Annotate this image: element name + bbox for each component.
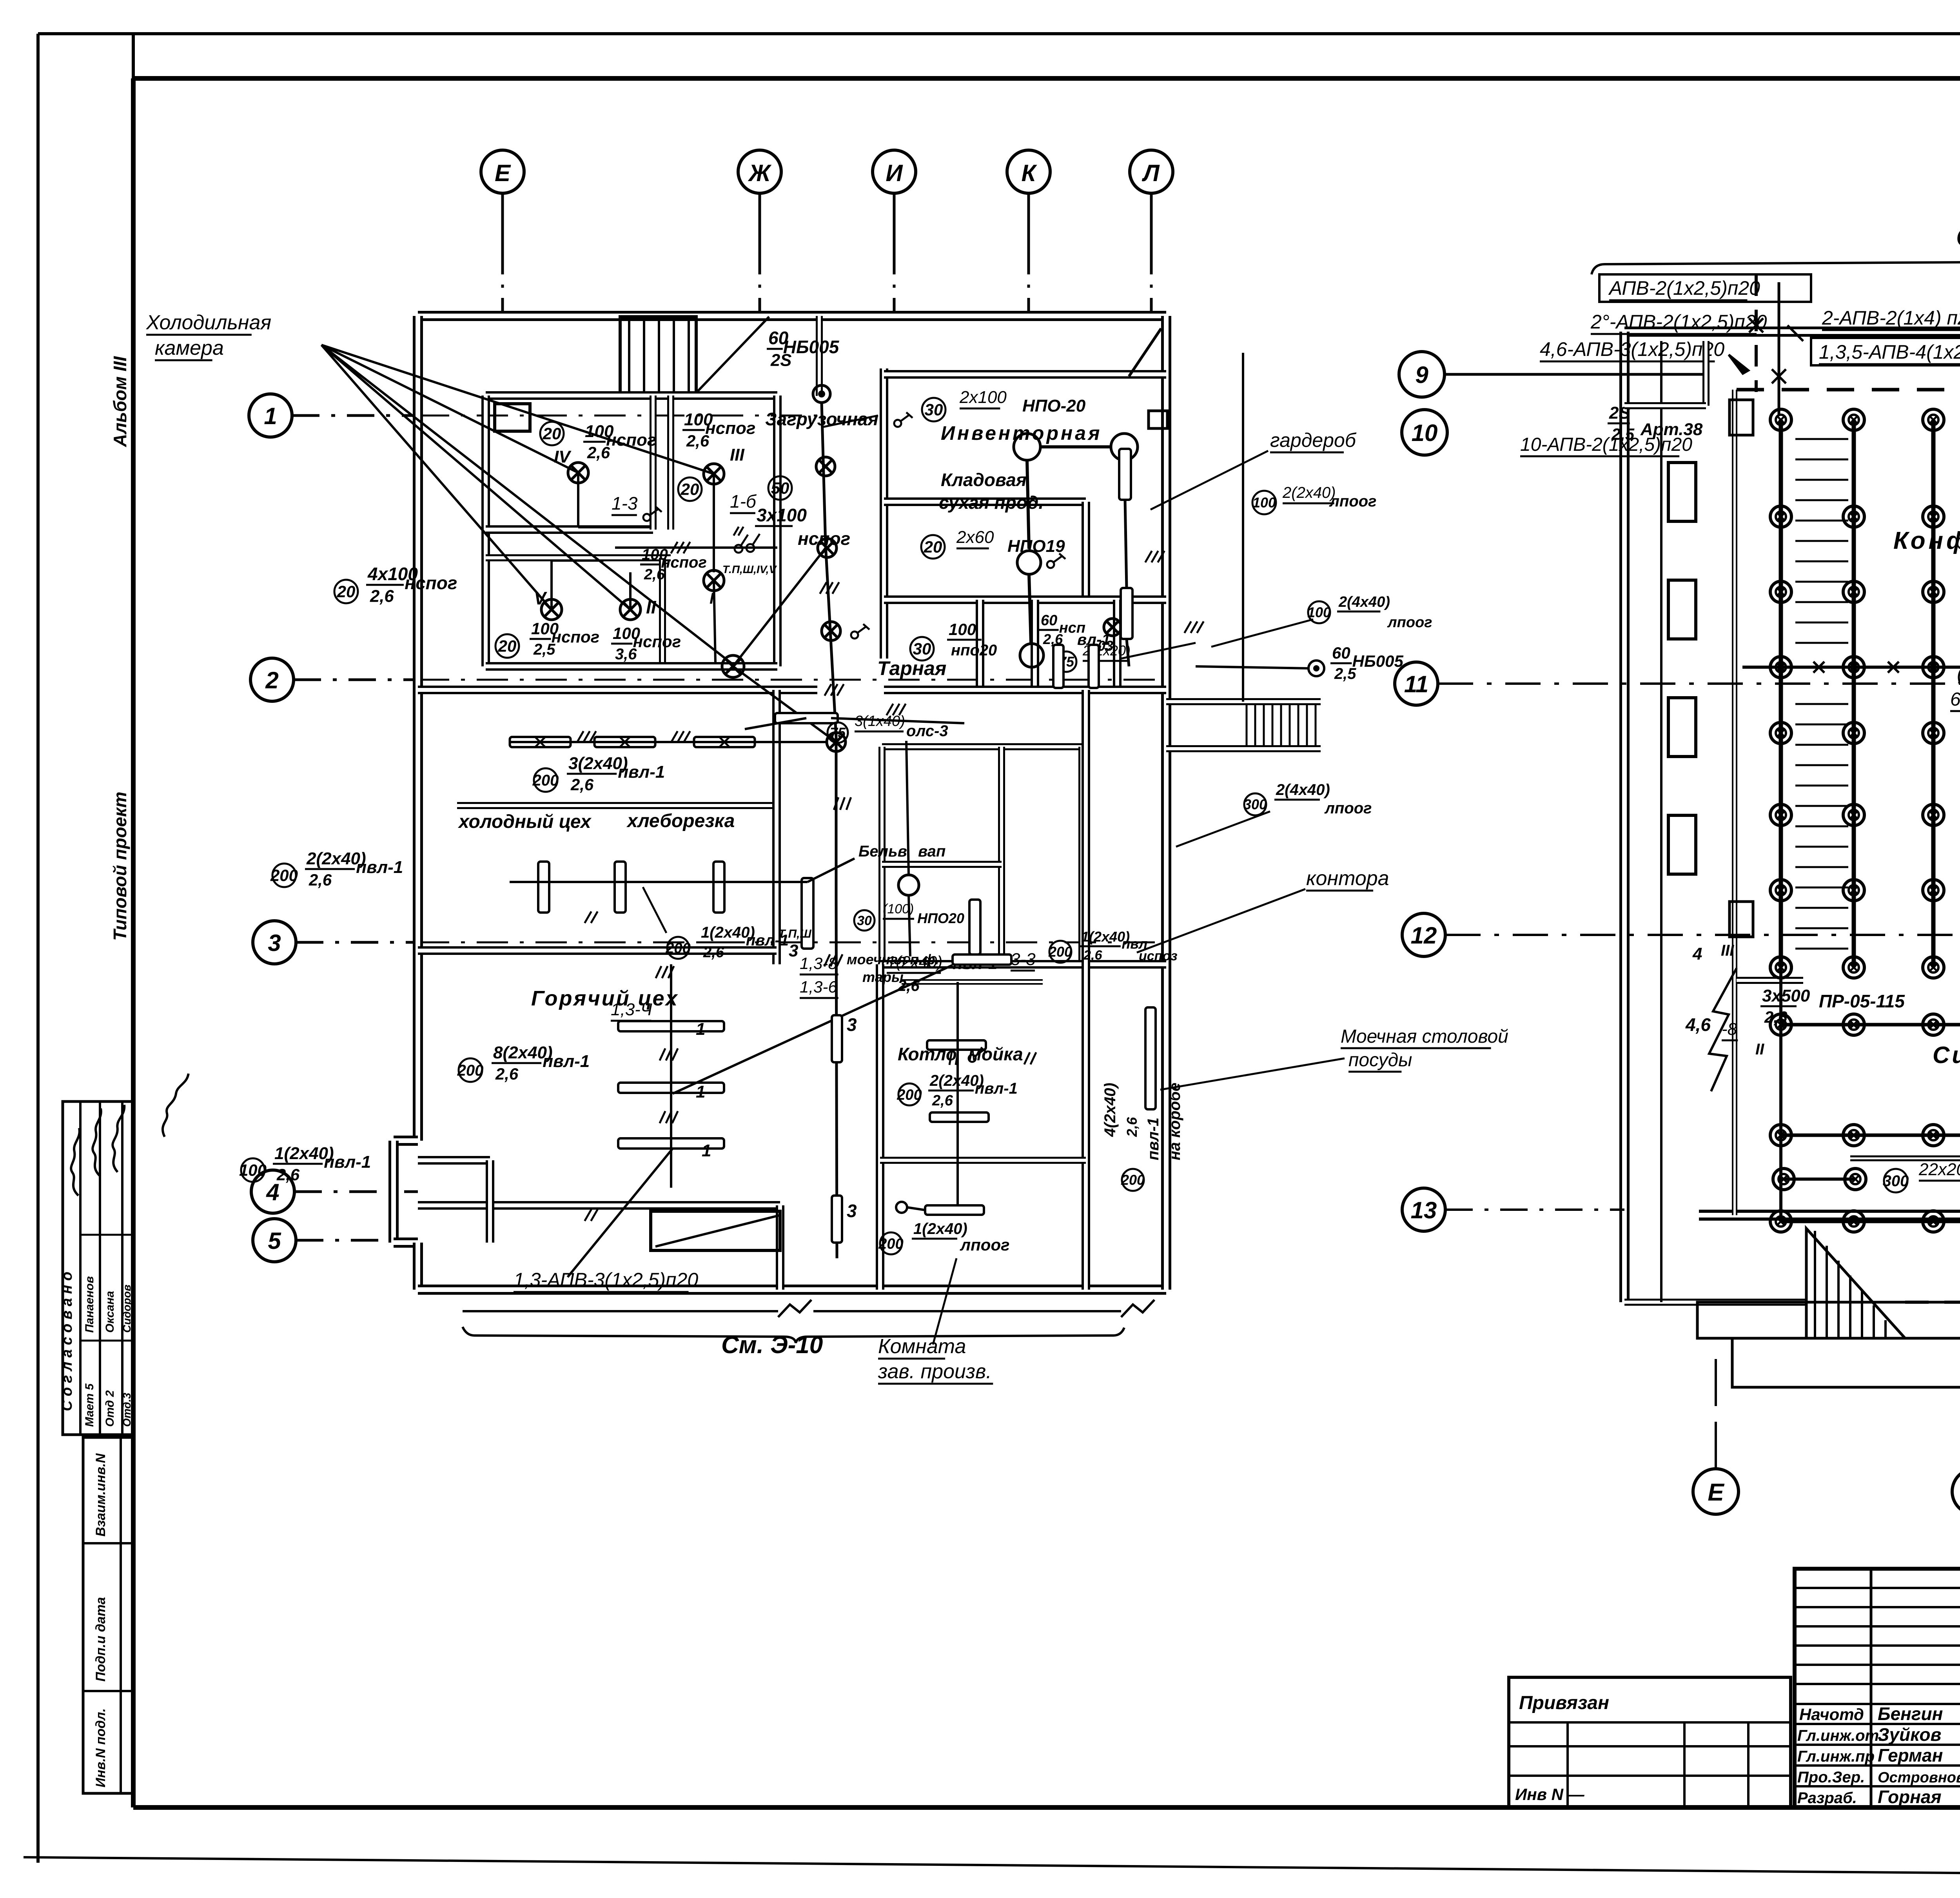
svg-text:2,6: 2,6: [703, 944, 724, 961]
svg-text:4,6-АПВ-3(1х2,5)п20: 4,6-АПВ-3(1х2,5)п20: [1540, 338, 1724, 360]
svg-text:1,3-Ч: 1,3-Ч: [611, 1000, 652, 1019]
svg-text:63х100: 63х100: [1950, 689, 1960, 710]
svg-text:1,3-АПВ-3(1х2,5)п20: 1,3-АПВ-3(1х2,5)п20: [514, 1269, 698, 1291]
svg-text:I: I: [710, 590, 714, 607]
svg-text:испоз: испоз: [1139, 949, 1178, 964]
svg-text:50: 50: [771, 479, 789, 497]
svg-text:Бенгин: Бенгин: [1878, 1704, 1943, 1724]
svg-text:Гл.инж.пр: Гл.инж.пр: [1797, 1748, 1875, 1765]
svg-text:нпо20: нпо20: [951, 642, 997, 659]
svg-text:нспог: нспог: [405, 573, 457, 593]
svg-text:нспог: нспог: [798, 528, 850, 549]
svg-text:Инв N —: Инв N —: [1515, 1785, 1585, 1804]
svg-text:200: 200: [1121, 1172, 1145, 1188]
svg-text:II: II: [1755, 1041, 1764, 1058]
svg-text:лпоог: лпоог: [1324, 800, 1372, 817]
svg-text:3: 3: [847, 1014, 857, 1035]
svg-text:1: 1: [264, 403, 277, 429]
svg-text:С о г л а с о в а н о: С о г л а с о в а н о: [59, 1272, 75, 1411]
svg-text:нспог: нспог: [633, 632, 681, 651]
svg-text:пвл-1: пвл-1: [356, 858, 403, 877]
svg-text:2,6: 2,6: [1764, 1008, 1788, 1026]
svg-text:2х100: 2х100: [959, 388, 1007, 407]
svg-text:См. Э-10: См. Э-10: [1956, 222, 1960, 252]
svg-text:моечная п.ф.: моечная п.ф.: [847, 951, 939, 967]
svg-text:2,6: 2,6: [276, 1165, 300, 1184]
svg-text:Арт.38: Арт.38: [1640, 420, 1703, 439]
svg-text:пвл-1: пвл-1: [1145, 1118, 1162, 1160]
svg-text:2°-АПВ-2(1х2,5)п20: 2°-АПВ-2(1х2,5)п20: [1590, 311, 1767, 333]
svg-text:пвл-1: пвл-1: [618, 762, 665, 782]
svg-text:300: 300: [1243, 797, 1267, 813]
svg-text:лпоог: лпоог: [1387, 614, 1432, 631]
svg-text:НБ005: НБ005: [783, 337, 840, 357]
svg-text:ПР-05-115: ПР-05-115: [1819, 991, 1905, 1011]
svg-text:Горячий цех: Горячий цех: [531, 987, 679, 1010]
svg-text:Герман: Герман: [1878, 1745, 1943, 1766]
svg-text:3х100: 3х100: [757, 505, 807, 525]
svg-text:Взаим.инв.N: Взаим.инв.N: [93, 1453, 108, 1537]
svg-text:20: 20: [681, 480, 699, 499]
svg-text:Типовой проект: Типовой проект: [110, 792, 130, 941]
svg-text:9: 9: [1415, 362, 1428, 388]
svg-text:Подп.и дата: Подп.и дата: [93, 1597, 108, 1682]
svg-text:1-3: 1-3: [612, 493, 638, 514]
svg-text:2-АПВ-2(1х4) п20: 2-АПВ-2(1х4) п20: [1822, 307, 1960, 329]
svg-text:1: 1: [702, 1141, 711, 1160]
svg-text:100: 100: [949, 620, 976, 639]
svg-text:1,3-6: 1,3-6: [800, 978, 837, 996]
svg-text:2,6: 2,6: [495, 1065, 519, 1083]
svg-text:камера: камера: [155, 337, 224, 359]
svg-text:Инв.N подл.: Инв.N подл.: [93, 1708, 108, 1787]
svg-text:4: 4: [1692, 944, 1702, 964]
svg-text:гардероб: гардероб: [1270, 429, 1357, 451]
svg-text:200: 200: [878, 1236, 903, 1252]
svg-text:Привязан: Привязан: [1519, 1693, 1609, 1713]
svg-text:хлеборезка: хлеборезка: [626, 811, 735, 831]
svg-text:пвл-1: пвл-1: [975, 1080, 1018, 1097]
svg-text:Горная: Горная: [1878, 1787, 1942, 1807]
svg-text:3: 3: [268, 930, 281, 956]
svg-text:V: V: [534, 588, 547, 608]
svg-text:Моечная столовой: Моечная столовой: [1341, 1026, 1508, 1047]
svg-text:200: 200: [457, 1062, 484, 1079]
svg-text:пвл-1: пвл-1: [543, 1052, 590, 1071]
svg-text:на коробе: на коробе: [1166, 1083, 1183, 1160]
svg-text:1,3,5-АПВ-4(1х2,5)п20: 1,3,5-АПВ-4(1х2,5)п20: [1819, 341, 1960, 363]
svg-text:Кладовая: Кладовая: [941, 470, 1027, 490]
svg-text:2х60: 2х60: [956, 528, 994, 547]
svg-text:См. Э-10: См. Э-10: [721, 1332, 823, 1359]
svg-text:Сидоров: Сидоров: [121, 1285, 133, 1333]
svg-text:Панаенов: Панаенов: [83, 1276, 96, 1333]
svg-text:Комната: Комната: [878, 1335, 966, 1358]
svg-text:20: 20: [337, 582, 356, 601]
svg-text:Конференц зал: Конференц зал: [1893, 527, 1960, 554]
svg-text:Зуйков: Зуйков: [1878, 1724, 1941, 1745]
svg-text:2,6: 2,6: [370, 587, 394, 606]
svg-text:20: 20: [498, 637, 517, 655]
svg-text:Е: Е: [495, 160, 511, 186]
svg-text:IV: IV: [554, 447, 572, 466]
svg-text:11: 11: [1404, 671, 1428, 697]
svg-text:контора: контора: [1306, 867, 1389, 890]
svg-text:III: III: [1721, 942, 1734, 959]
svg-text:13: 13: [1411, 1197, 1437, 1223]
svg-text:олс-3: олс-3: [906, 722, 948, 740]
svg-text:Гл.инж.от.: Гл.инж.от.: [1797, 1727, 1883, 1744]
svg-text:2,6: 2,6: [932, 1092, 953, 1109]
svg-text:300: 300: [1883, 1172, 1909, 1190]
svg-text:вл-1: вл-1: [1077, 631, 1111, 648]
svg-text:200: 200: [270, 866, 298, 885]
svg-text:2,6: 2,6: [309, 871, 332, 889]
svg-text:Начотд: Начотд: [1799, 1705, 1864, 1724]
svg-text:2(4х40): 2(4х40): [1276, 781, 1330, 798]
svg-text:нспог: нспог: [606, 430, 656, 450]
svg-text:2(4х40): 2(4х40): [1338, 594, 1390, 610]
svg-text:II: II: [646, 597, 657, 617]
svg-text:100: 100: [1307, 604, 1331, 621]
svg-text:Оксана: Оксана: [103, 1291, 116, 1333]
svg-text:III: III: [730, 445, 744, 465]
svg-text:нспог: нспог: [552, 628, 599, 646]
svg-text:60: 60: [1332, 644, 1350, 662]
svg-text:Отд 2: Отд 2: [103, 1390, 116, 1427]
svg-text:20: 20: [924, 538, 942, 556]
svg-text:3: 3: [789, 941, 798, 960]
svg-text:посуды: посуды: [1348, 1050, 1412, 1071]
svg-text:1: 1: [696, 1020, 705, 1039]
svg-text:нспог: нспог: [705, 419, 755, 438]
svg-text:30: 30: [925, 401, 943, 419]
svg-text:Островнова: Островнова: [1878, 1769, 1960, 1786]
svg-text:Т.П,Ш,IV,V: Т.П,Ш,IV,V: [722, 563, 777, 575]
svg-text:12: 12: [1411, 922, 1437, 949]
svg-text:Сцена: Сцена: [1933, 1042, 1960, 1068]
svg-text:Бельв: Бельв: [858, 843, 907, 860]
svg-text:Инвенторная: Инвенторная: [941, 422, 1102, 444]
svg-text:Отд.3: Отд.3: [121, 1393, 133, 1427]
svg-text:НПО-20: НПО-20: [1022, 396, 1086, 416]
svg-text:5: 5: [268, 1228, 281, 1254]
svg-text:100: 100: [1252, 495, 1276, 511]
svg-text:холодный цех: холодный цех: [457, 811, 592, 832]
svg-text:зав. произв.: зав. произв.: [878, 1360, 992, 1383]
svg-text:2,6: 2,6: [1083, 948, 1103, 963]
svg-text:30: 30: [857, 913, 872, 928]
svg-text:22х200: 22х200: [1918, 1160, 1960, 1179]
svg-text:75: 75: [830, 725, 846, 741]
svg-text:пвл-1: пвл-1: [324, 1152, 371, 1172]
svg-text:60: 60: [1041, 612, 1057, 629]
svg-text:200: 200: [532, 772, 559, 789]
svg-text:2: 2: [265, 667, 278, 693]
svg-text:2(2х40): 2(2х40): [1282, 484, 1336, 501]
svg-text:20: 20: [543, 425, 561, 443]
svg-text:Холодильная: Холодильная: [146, 311, 271, 334]
svg-text:АПВ-2(1х2,5)п20: АПВ-2(1х2,5)п20: [1608, 277, 1760, 299]
svg-text:тары: тары: [862, 969, 904, 985]
svg-text:200: 200: [1048, 944, 1072, 960]
svg-text:Мает 5: Мает 5: [83, 1383, 96, 1427]
svg-text:Л: Л: [1142, 160, 1160, 186]
svg-text:4,6: 4,6: [1685, 1014, 1711, 1035]
svg-text:2,6: 2,6: [570, 775, 594, 794]
svg-text:200: 200: [665, 940, 690, 956]
svg-text:100: 100: [239, 1161, 267, 1179]
svg-text:К: К: [1022, 160, 1038, 186]
svg-text:Т,П,Ш: Т,П,Ш: [778, 927, 811, 940]
svg-text:НПО19: НПО19: [1007, 537, 1065, 556]
svg-text:1-б: 1-б: [730, 491, 757, 512]
svg-text:вап: вап: [918, 843, 946, 860]
svg-text:Разраб.: Разраб.: [1797, 1789, 1857, 1807]
svg-text:лпоог: лпоог: [1329, 493, 1377, 510]
svg-text:Про.Зер.: Про.Зер.: [1797, 1769, 1865, 1786]
svg-text:Альбом III: Альбом III: [110, 356, 130, 447]
svg-text:нспог: нспог: [661, 554, 707, 571]
svg-text:Ж: Ж: [748, 160, 772, 186]
svg-text:30: 30: [913, 640, 931, 658]
svg-text:2,6: 2,6: [1124, 1117, 1140, 1137]
svg-text:И: И: [886, 160, 903, 186]
svg-text:3-3: 3-3: [1011, 950, 1036, 969]
svg-text:Тарная: Тарная: [877, 657, 946, 679]
svg-text:Е: Е: [1708, 1479, 1724, 1506]
svg-text:1(2х40): 1(2х40): [913, 1220, 967, 1238]
svg-text:сухая прод.: сухая прод.: [939, 492, 1044, 513]
svg-text:1: 1: [696, 1082, 705, 1101]
svg-text:лпоог: лпоог: [960, 1236, 1010, 1254]
svg-text:200: 200: [897, 1087, 922, 1103]
svg-text:3х500: 3х500: [1762, 986, 1810, 1005]
svg-text:1,3-8: 1,3-8: [800, 954, 837, 973]
svg-text:3: 3: [847, 1201, 857, 1221]
svg-text:(100): (100): [883, 902, 914, 916]
svg-text:НПО20: НПО20: [917, 910, 964, 926]
svg-text:НБ005: НБ005: [1352, 652, 1404, 670]
svg-text:4(2х40): 4(2х40): [1102, 1083, 1119, 1137]
svg-text:2,5: 2,5: [1611, 425, 1635, 443]
svg-text:10: 10: [1412, 420, 1438, 446]
